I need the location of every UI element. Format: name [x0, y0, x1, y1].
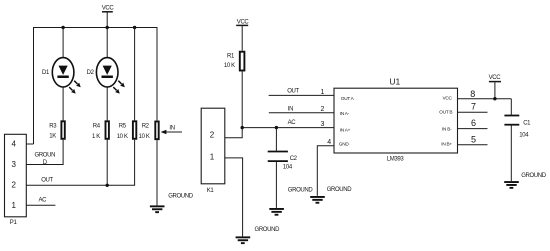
wire U1 pin8 VCC	[458, 98, 512, 100]
wire P1 pin1 AC stub	[26, 204, 55, 206]
power VCC (above R1)	[236, 20, 249, 51]
svg-text:5: 5	[471, 134, 476, 144]
svg-text:OUT: OUT	[287, 88, 299, 94]
svg-text:VCC: VCC	[237, 20, 250, 26]
svg-text:GND: GND	[339, 142, 350, 147]
svg-text:AC: AC	[39, 197, 48, 203]
svg-text:K1: K1	[207, 188, 215, 194]
svg-text:1K: 1K	[49, 133, 56, 139]
node bus-VCC	[106, 26, 109, 29]
resistor R3	[49, 121, 65, 139]
wire P1 pin4 stub	[26, 143, 33, 145]
svg-text:7: 7	[471, 102, 476, 112]
svg-text:4: 4	[327, 139, 331, 146]
capacitor C2	[268, 128, 298, 208]
wire U1 pin6 stub	[458, 128, 488, 130]
svg-text:GROUND: GROUND	[168, 193, 194, 199]
svg-text:10 K: 10 K	[117, 134, 128, 140]
svg-text:AC: AC	[288, 120, 297, 126]
power VCC (top-left)	[102, 6, 115, 28]
node bus-D1	[61, 26, 64, 29]
svg-text:D1: D1	[42, 70, 50, 76]
wire K1 pin1 to ground	[225, 158, 243, 237]
resistor R1	[224, 52, 245, 71]
port IN arrow	[161, 125, 182, 134]
svg-text:1: 1	[321, 89, 325, 96]
svg-text:2: 2	[210, 130, 215, 139]
svg-text:VCC: VCC	[489, 75, 502, 81]
svg-text:R1: R1	[227, 54, 235, 60]
svg-text:C1: C1	[523, 120, 531, 126]
op-amp U1 (LM393)	[334, 77, 458, 163]
svg-text:104: 104	[519, 133, 529, 139]
svg-text:GROUND: GROUND	[255, 227, 281, 233]
wire OUT net to U1 pin1	[269, 94, 334, 96]
resistor R5	[117, 121, 137, 140]
svg-text:2: 2	[321, 106, 325, 113]
wire D1 branch	[62, 28, 64, 121]
ground (C2)	[269, 208, 284, 216]
svg-text:R5: R5	[119, 124, 127, 130]
node AC-C2	[275, 126, 278, 129]
svg-text:IN B-: IN B-	[442, 127, 452, 132]
ground (U1 GND)	[310, 187, 352, 204]
svg-text:OUT: OUT	[41, 177, 53, 183]
node AC-R1-K1	[241, 126, 244, 129]
svg-text:R4: R4	[93, 124, 101, 130]
wire IN net to U1 pin2	[269, 112, 334, 114]
wire K1 pin2 to AC node	[225, 128, 242, 138]
node VCC-pin8	[493, 97, 496, 100]
wire AC net to U1 pin3	[242, 127, 334, 129]
capacitor C1	[504, 99, 531, 181]
ground (K1 pin1)	[236, 227, 280, 244]
svg-text:IN: IN	[288, 106, 293, 112]
LED D1	[42, 58, 81, 94]
node OUT-R4	[106, 184, 109, 187]
ground (R2)	[150, 193, 194, 213]
svg-text:10 K: 10 K	[139, 134, 150, 140]
svg-text:OUT A: OUT A	[341, 96, 355, 101]
svg-text:VCC: VCC	[443, 96, 453, 101]
wire R1 bottom to AC node	[241, 71, 243, 128]
svg-text:LM393: LM393	[387, 157, 405, 163]
svg-text:6: 6	[471, 118, 476, 128]
svg-text:IN: IN	[169, 125, 174, 131]
svg-text:D2: D2	[87, 70, 95, 76]
svg-text:IN A-: IN A-	[340, 111, 350, 116]
svg-text:OUT B: OUT B	[439, 110, 452, 115]
svg-text:GROUND: GROUND	[288, 187, 314, 193]
wire R5 branch	[134, 28, 136, 121]
svg-text:GROUND: GROUND	[521, 173, 547, 179]
wire OUT net (P1 pin2 to R4/R5)	[27, 140, 135, 186]
wire U1 pin5 stub	[458, 144, 488, 146]
svg-text:R3: R3	[49, 124, 57, 130]
wire U1 pin4 GND to ground	[317, 146, 334, 196]
svg-text:GROUN: GROUN	[35, 152, 56, 158]
power VCC (right)	[489, 75, 502, 99]
wire R4 bottom	[106, 140, 108, 186]
svg-text:R2: R2	[142, 124, 150, 130]
connector P1	[5, 134, 27, 226]
svg-text:IN A+: IN A+	[340, 127, 351, 132]
svg-text:IN B+: IN B+	[441, 141, 452, 146]
svg-text:104: 104	[283, 165, 293, 171]
svg-text:C2: C2	[290, 156, 298, 162]
wire R2 to ground	[156, 140, 158, 205]
wire D2 branch	[106, 28, 108, 121]
svg-text:U1: U1	[389, 77, 400, 87]
svg-text:8: 8	[470, 89, 475, 99]
svg-text:1 K: 1 K	[92, 134, 100, 140]
svg-text:P1: P1	[10, 220, 18, 226]
node bus-R5	[133, 26, 136, 29]
svg-text:3: 3	[321, 121, 325, 128]
LED D2	[87, 58, 125, 94]
net label GROUND (P1 pin3)	[35, 152, 56, 166]
ground (C1)	[504, 173, 547, 189]
resistor R2	[139, 122, 159, 141]
resistor R4	[92, 121, 109, 140]
wire R3 to P1 pin3	[27, 140, 64, 165]
svg-text:VCC: VCC	[102, 6, 115, 12]
svg-text:GROUND: GROUND	[327, 187, 353, 193]
wire VCC bus	[34, 28, 158, 145]
connector K1	[201, 108, 225, 194]
svg-text:10 K: 10 K	[224, 63, 235, 69]
wire U1 pin7 stub	[458, 111, 488, 113]
svg-text:1: 1	[210, 152, 215, 161]
